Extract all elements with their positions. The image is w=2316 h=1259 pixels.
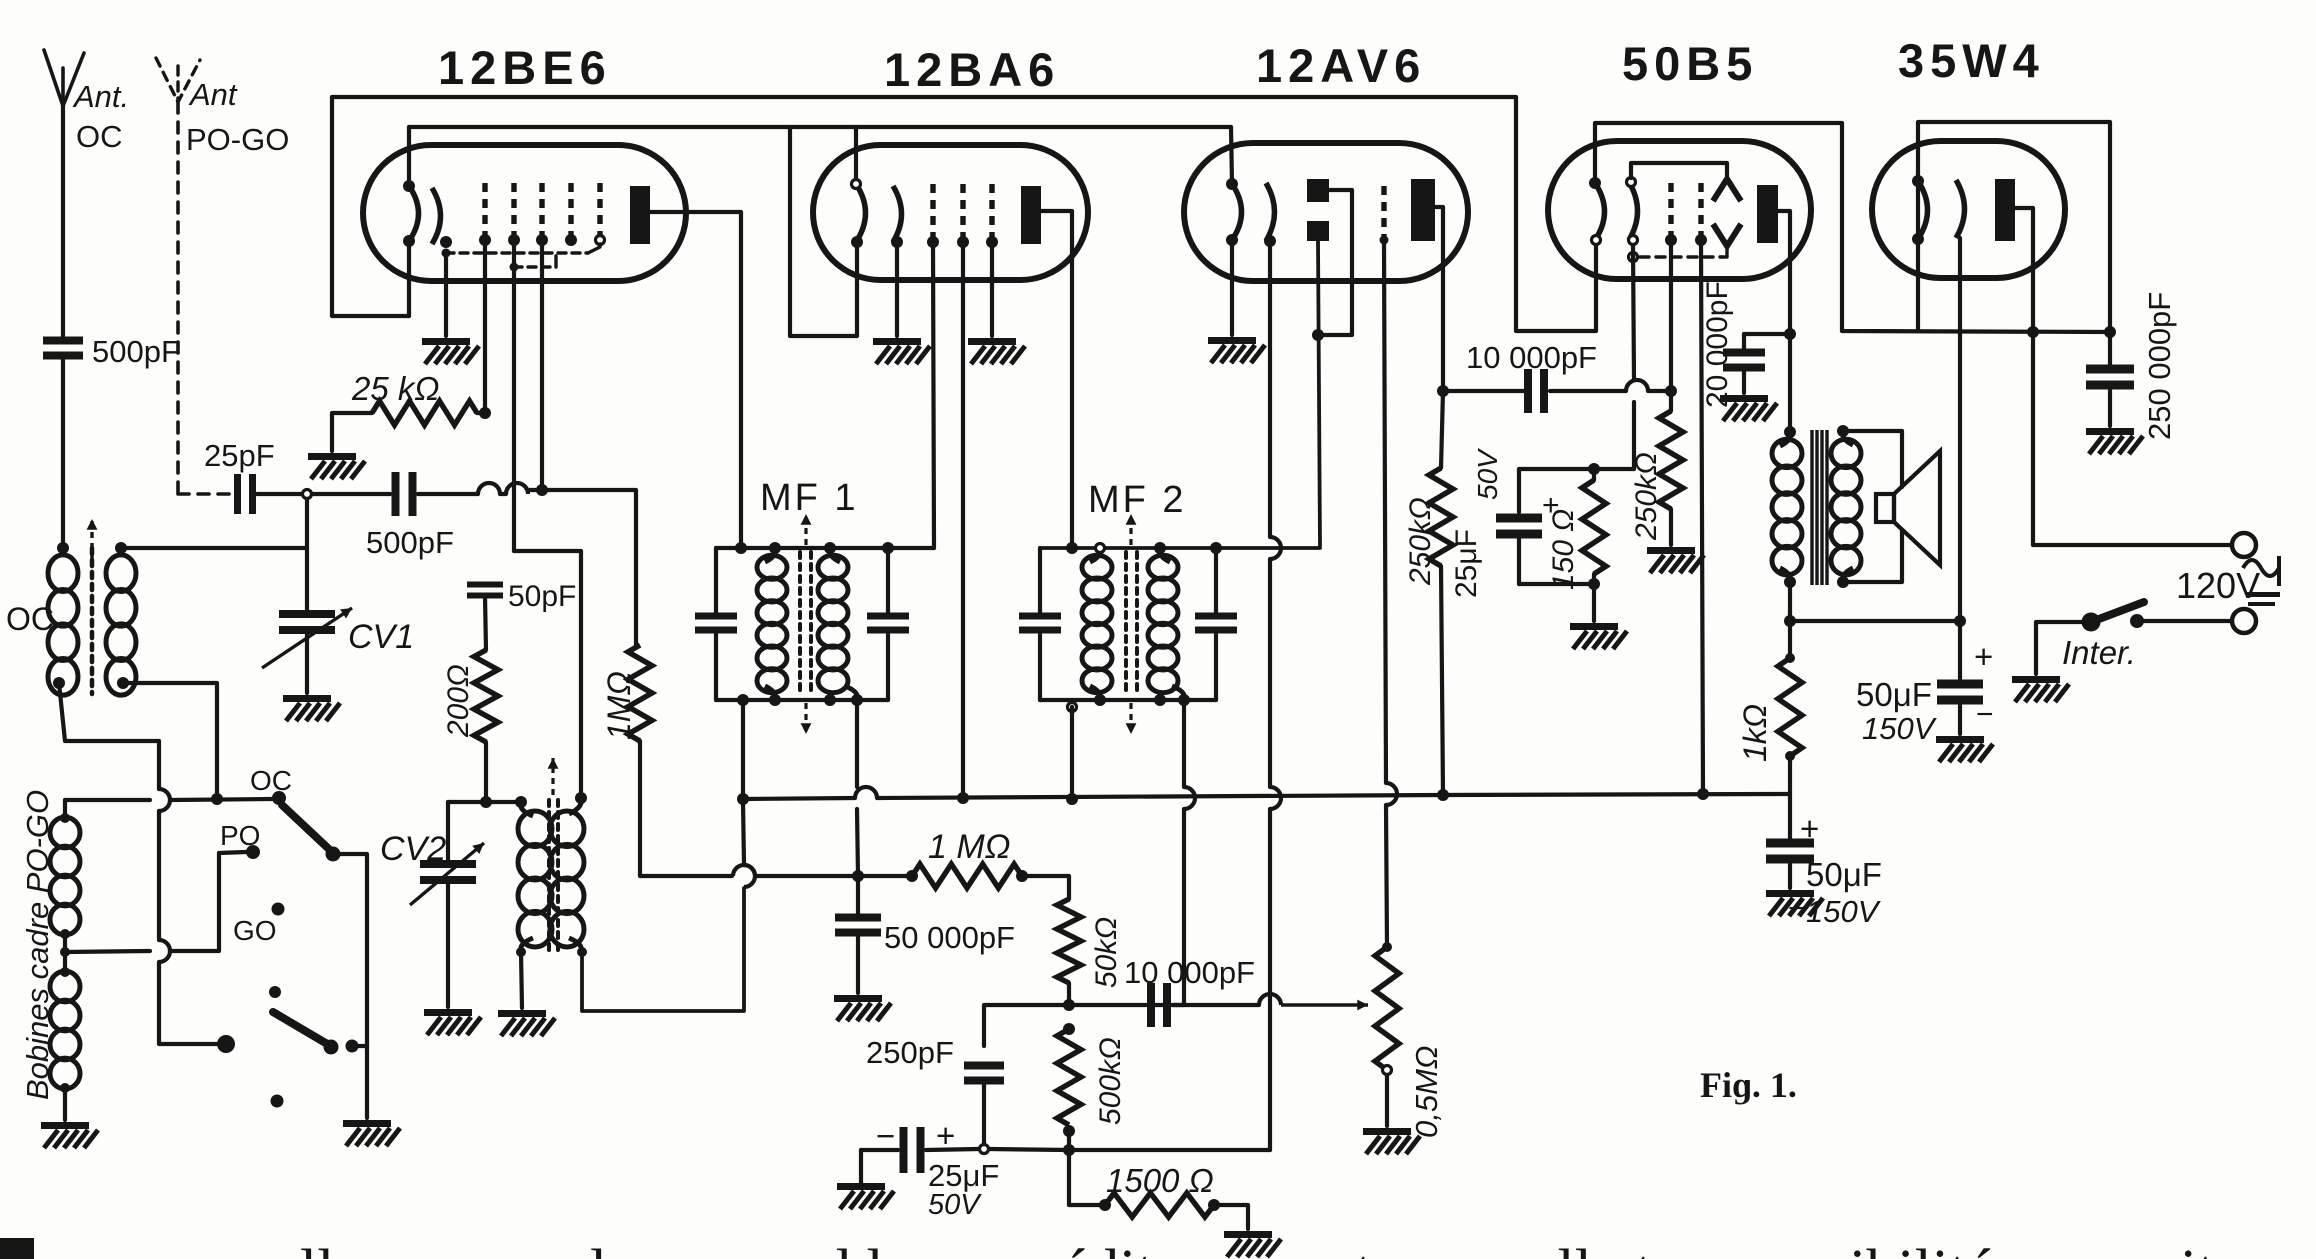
svg-text:d le: d le bbox=[820, 1238, 911, 1259]
grid1 of 50B5 bbox=[1698, 183, 1703, 238]
svg-text:+: + bbox=[1800, 810, 1819, 847]
wire osc return to bus bbox=[743, 802, 744, 864]
wire coupling left lead bbox=[1443, 389, 1523, 393]
cathode of 12AV6 bbox=[1266, 183, 1275, 241]
wire 25uF right bbox=[926, 1149, 979, 1150]
junction antenna wire bbox=[211, 793, 223, 805]
wire 50B5 g2 lead bbox=[1669, 240, 1673, 391]
wire cathode feed bbox=[1790, 619, 1960, 623]
svg-text:50V: 50V bbox=[1472, 448, 1503, 500]
wire 35W4 plate down bbox=[2015, 208, 2033, 332]
capacitor 50µF 150V right bbox=[1937, 680, 1983, 705]
cathode of 35W4 bbox=[1956, 180, 1965, 238]
svg-text:lle: lle bbox=[300, 1238, 362, 1259]
wire 50uF bottom stem bbox=[1788, 794, 1792, 840]
wire antenna PO-GO dashed bbox=[176, 102, 180, 494]
junction MF1 primary bottom bus bbox=[737, 793, 749, 805]
coil MF1 primary bbox=[757, 555, 787, 692]
wire MF2 secondary down2 bbox=[1152, 809, 1184, 1005]
pin dot 50B5 filament top bbox=[1589, 177, 1601, 189]
wire Inter to ground bbox=[2036, 622, 2091, 674]
junction PO-GO mid1 bbox=[60, 929, 70, 939]
tube 35W4 envelope bbox=[1872, 141, 2065, 278]
wire osc grid jog bbox=[514, 551, 581, 798]
resistor 1MΩ horizontal bbox=[912, 864, 1022, 888]
beam electrode upper of 50B5 bbox=[1713, 179, 1741, 201]
wire 12BE6 g3 lead bbox=[540, 240, 544, 490]
wire MF2 right cap stem2 bbox=[1214, 634, 1218, 700]
wire 12BE6 internal grid link bbox=[446, 251, 588, 254]
resistor 150Ω bbox=[1582, 480, 1606, 574]
capacitor 10000pF audio bbox=[1147, 983, 1171, 1027]
wire PO-GO to ground bbox=[63, 1088, 67, 1120]
pin circle 50B5 filament bottom bbox=[1592, 236, 1601, 245]
contact Inter left bbox=[2082, 613, 2101, 632]
junction MF1 right cap top bbox=[882, 542, 894, 554]
capacitor 25µF 50V bbox=[900, 1127, 925, 1173]
grid4 of 12BE6 bbox=[568, 183, 573, 238]
contact Inter right bbox=[2130, 614, 2144, 628]
coil cadre PO-GO lower bbox=[50, 971, 80, 1089]
wire 50uF right stem bbox=[1958, 621, 1962, 681]
hook MF2 secondary top bbox=[1160, 552, 1170, 562]
capacitor 20000pF bbox=[1723, 349, 1765, 372]
wire OC primary bottom bbox=[59, 683, 159, 741]
wire pivot link bbox=[333, 854, 367, 1044]
wire MF1 left cap stem2 bbox=[714, 634, 718, 700]
wire 50B5 screen loop bbox=[1631, 163, 1727, 178]
hook MF1 primary top bbox=[765, 552, 775, 562]
contact lower-right switch bbox=[346, 1040, 359, 1053]
svg-text:OC: OC bbox=[250, 765, 292, 796]
junction 50B5 grid cap bbox=[1665, 385, 1677, 397]
wire MF1 secondary down bbox=[855, 700, 859, 787]
junction MF1 bot primary bbox=[737, 694, 749, 706]
junction MF2 bot secondary bbox=[1178, 694, 1190, 706]
junction transformer bottom bbox=[1784, 576, 1796, 588]
cathode of 50B5 bbox=[1629, 182, 1638, 240]
svg-text:150 Ω: 150 Ω bbox=[1547, 509, 1580, 590]
svg-text:l: l bbox=[590, 1238, 607, 1259]
wire 50B5 plate to transformer bbox=[1788, 334, 1792, 432]
grid2 of 12BE6 bbox=[511, 183, 516, 238]
wire MF2 sec hop bus bbox=[1184, 787, 1195, 809]
terminal lower bbox=[2232, 609, 2256, 633]
capacitor 50000pF bbox=[835, 914, 881, 937]
junction osc secondary bottom bbox=[577, 947, 587, 957]
wire MF1 right cap stem2 bbox=[886, 634, 890, 700]
junction transformer top bbox=[1784, 426, 1796, 438]
svg-text:10 000pF: 10 000pF bbox=[1124, 955, 1255, 990]
wire 12BA6 heater loop bbox=[790, 127, 857, 336]
svg-text:10 000pF: 10 000pF bbox=[1466, 340, 1597, 375]
svg-text:1kΩ: 1kΩ bbox=[1737, 704, 1773, 762]
hook MF2 secondary bottom bbox=[1172, 686, 1184, 696]
junction 500k top bbox=[1063, 1023, 1075, 1035]
junction 250pF return bbox=[980, 1145, 989, 1154]
grid1 of 12BE6 bbox=[482, 183, 487, 238]
speaker driver bbox=[1876, 494, 1894, 522]
junction MF2 plate bbox=[1066, 542, 1078, 554]
diode plate A of 12AV6 bbox=[1307, 179, 1329, 202]
wire switch lower end bbox=[159, 962, 217, 1044]
junction osc primary top bbox=[515, 796, 527, 808]
svg-text:PO-GO: PO-GO bbox=[186, 122, 289, 157]
wire 12BE6 left frame bbox=[332, 97, 409, 316]
wire osc primary ground lead bbox=[521, 952, 522, 1008]
junction OC primary top bbox=[57, 542, 69, 554]
junction circle input bbox=[303, 490, 312, 499]
hook out primary top bbox=[1780, 436, 1790, 446]
wire pot ground lead bbox=[1385, 1075, 1389, 1126]
pin dot 12BE6 g1 bbox=[479, 234, 491, 246]
wire MF2 top rail bbox=[1040, 546, 1320, 550]
svg-text:25μF: 25μF bbox=[1450, 529, 1483, 598]
wire heater line bbox=[409, 125, 1231, 129]
junction MF2 secondary top bbox=[1154, 542, 1166, 554]
hook MF1 secondary bottom bbox=[845, 686, 857, 696]
wire 150 ground lead bbox=[1592, 584, 1596, 621]
wire secondary bottom to speaker bbox=[1843, 530, 1902, 582]
wire hop over cathode line bbox=[1259, 994, 1281, 1005]
ground 50µF right bbox=[1936, 736, 1993, 762]
junction 12BE6 internal bbox=[442, 249, 451, 258]
pin dot 12BE6 g4 bbox=[565, 234, 577, 246]
core MF2 b bbox=[1135, 552, 1139, 696]
wire 1k top lead bbox=[1788, 621, 1792, 658]
wire OC secondary to PO-GO top bbox=[123, 683, 217, 799]
wire PO-GO contact line bbox=[65, 798, 150, 802]
pin dot 12BA6 g3 bbox=[986, 236, 998, 248]
wire diodes to MF2 bbox=[1318, 241, 1320, 546]
svg-text:50μF: 50μF bbox=[1806, 856, 1882, 893]
svg-text:Ant: Ant bbox=[188, 77, 238, 112]
wire PO-GO contact line2 bbox=[170, 799, 272, 800]
junction secondary bottom bbox=[1837, 576, 1849, 588]
wire lower contact link bbox=[352, 1044, 367, 1048]
wire 12AV6 cathode down2 bbox=[1268, 559, 1272, 787]
tube 12AV6 envelope bbox=[1184, 143, 1468, 281]
terminal upper bbox=[2232, 533, 2256, 557]
ground 50µF lower bbox=[1766, 890, 1823, 916]
junction detector node bbox=[1063, 999, 1075, 1011]
core MF1 a bbox=[798, 552, 802, 696]
junction 1MΩh right bbox=[1016, 870, 1028, 882]
wire heater feed to 50B5 bbox=[1516, 97, 1596, 331]
svg-text:50μF: 50μF bbox=[1856, 676, 1932, 713]
svg-text:50pF: 50pF bbox=[508, 580, 576, 613]
junction MF1 plate bbox=[735, 542, 747, 554]
svg-text:rédit: rédit bbox=[1040, 1238, 1154, 1259]
wire 12AV6 plate down bbox=[1435, 207, 1443, 391]
arrow volume wiper bbox=[1281, 1000, 1368, 1011]
plate of 50B5 bbox=[1757, 185, 1778, 243]
svg-text:t: t bbox=[1355, 1238, 1372, 1259]
arrow OC tuning bbox=[87, 519, 98, 560]
arrow MF2 bottom bbox=[1126, 703, 1137, 734]
pin dot 50B5 g2 bbox=[1665, 234, 1677, 246]
wire g3 to 1MΩ bbox=[542, 490, 636, 645]
wire 50B5 filament top to frame bbox=[1595, 123, 2110, 332]
resistor 1MΩ vertical bbox=[628, 645, 652, 741]
capacitor 25µF cathode bbox=[1496, 514, 1542, 539]
svg-text:200Ω: 200Ω bbox=[442, 664, 475, 738]
wire 50uF right ground lead bbox=[1958, 702, 1962, 734]
wire top B+ bus bbox=[332, 95, 1516, 99]
capacitor 500pF grid bbox=[392, 472, 417, 516]
wire 12BA6 screen to bus bbox=[961, 242, 965, 798]
coil MF2 primary bbox=[1082, 555, 1112, 692]
junction PO-GO coil bottom bbox=[60, 1083, 70, 1093]
junction 500k bottom bbox=[1063, 1125, 1075, 1137]
svg-text:250pF: 250pF bbox=[866, 1035, 954, 1070]
pin dot 12BA6 g1 bbox=[927, 236, 939, 248]
svg-text:250kΩ: 250kΩ bbox=[1404, 497, 1437, 586]
junction osc primary bottom bbox=[516, 947, 526, 957]
wire 12BE6 g5 hook bbox=[588, 244, 600, 253]
svg-text:250 000pF: 250 000pF bbox=[2142, 292, 2177, 440]
wire MF1 right cap stem bbox=[886, 548, 890, 614]
junction MF2 primary top bbox=[1096, 544, 1105, 553]
wire cap to MF2 drop bbox=[1173, 1003, 1259, 1007]
pin dot 12AV6 cathode bbox=[1264, 235, 1276, 247]
wire AVC seg2 bbox=[756, 874, 858, 878]
wire hop over AVC bbox=[744, 865, 755, 887]
pin dot 12BE6 g3 bbox=[536, 234, 548, 246]
junction bus 12BA6 screen bbox=[957, 792, 969, 804]
hook out secondary top bbox=[1843, 435, 1853, 445]
wire 12BE6 g2 lead bbox=[483, 240, 487, 413]
junction diodes bbox=[1312, 329, 1324, 341]
wire MF2 left cap stem2 bbox=[1038, 634, 1042, 700]
wire coupling right bbox=[1648, 389, 1671, 393]
wire 12BA6 plate to MF2 bbox=[1041, 211, 1072, 548]
resistor 1kΩ bbox=[1778, 658, 1802, 756]
grid3 of 12BA6 bbox=[989, 184, 994, 238]
junction pot bottom bbox=[1383, 1066, 1392, 1075]
speaker cone bbox=[1894, 451, 1940, 565]
junction secondary top bbox=[1837, 425, 1849, 437]
wire coupling mid bbox=[1550, 389, 1626, 393]
wire MF2 secondary down bbox=[1182, 700, 1186, 787]
wire transformer to 1k bbox=[1788, 582, 1792, 621]
grid of 12AV6 bbox=[1381, 186, 1386, 238]
junction bus 50B5 grid bbox=[1697, 788, 1709, 800]
antenna PO-GO mast bbox=[176, 66, 179, 102]
wire 500pF to hops bbox=[418, 492, 478, 496]
pin dot 12AV6 grid bbox=[1380, 236, 1389, 245]
ground PO-GO coil bbox=[41, 1122, 98, 1148]
contact mid switch bbox=[269, 986, 281, 998]
capacitor 500pF antenna bbox=[43, 337, 83, 360]
svg-text:12BA6: 12BA6 bbox=[884, 43, 1060, 96]
svg-text:PO: PO bbox=[220, 820, 260, 851]
coil OC primary bbox=[48, 555, 78, 695]
svg-text:25μF: 25μF bbox=[928, 1158, 999, 1193]
hook MF1 primary bottom bbox=[765, 686, 775, 696]
antenna OC mast bbox=[61, 68, 65, 106]
wire 12BE6 filament bottom lead bbox=[407, 241, 411, 316]
junction bus 250k bbox=[1437, 789, 1449, 801]
svg-text:CV1: CV1 bbox=[348, 618, 414, 656]
arrow oscillator tuning bbox=[548, 758, 559, 795]
junction 150 bottom bbox=[1588, 578, 1600, 590]
wire osc top rail bbox=[448, 800, 521, 804]
junction MF2 bot secondary b bbox=[1154, 694, 1166, 706]
capacitor MF1 left bbox=[695, 613, 737, 634]
hook osc secondary top bbox=[569, 802, 581, 814]
wire OC sec top to CV1 bbox=[121, 546, 307, 550]
filament of 12BE6 bbox=[409, 186, 419, 241]
wire to g3 dot bbox=[528, 488, 542, 492]
svg-text:MF 2: MF 2 bbox=[1088, 479, 1187, 521]
wire 250k left top lead bbox=[1441, 391, 1443, 468]
grid1 of 12BA6 bbox=[930, 184, 935, 238]
contact lower-left switch bbox=[217, 1035, 235, 1053]
svg-text:elle t: elle t bbox=[1530, 1238, 1652, 1259]
junction 12BE6 internal2 bbox=[510, 263, 519, 272]
wire MF2 right cap stem bbox=[1214, 548, 1218, 614]
wire bus hop over AVC drop bbox=[855, 787, 877, 798]
tube 50B5 envelope bbox=[1548, 141, 1811, 279]
clipped body text drop cap bbox=[0, 1238, 34, 1259]
contact PO switch bbox=[246, 845, 260, 859]
ground 150Ω bbox=[1570, 623, 1627, 649]
filament of 12AV6 bbox=[1232, 184, 1242, 240]
ground 12BA6 g3 bbox=[968, 338, 1025, 364]
hook MF1 secondary top bbox=[830, 552, 840, 562]
diode plate B of 12AV6 bbox=[1307, 221, 1329, 241]
wire 35W4 plate to terminal bbox=[2031, 332, 2035, 545]
junction PO-GO coil top bbox=[60, 813, 70, 823]
wire 50B5 beam dash bbox=[1640, 255, 1722, 258]
svg-text:0,5MΩ: 0,5MΩ bbox=[1409, 1045, 1444, 1138]
coil oscillator primary bbox=[518, 811, 552, 947]
wire 250k right top lead bbox=[1669, 391, 1673, 411]
wire 12BA6 filament top lead bbox=[854, 127, 858, 181]
wire AVC hop bbox=[733, 865, 755, 876]
junction 1MΩh left bbox=[906, 870, 918, 882]
junction MF2 right cap top bbox=[1210, 542, 1222, 554]
svg-text:GO: GO bbox=[233, 915, 277, 946]
wire 20000pF link bbox=[1744, 332, 1790, 336]
capacitor 50pF bbox=[467, 582, 503, 599]
pin dot 12AV6 filament bottom bbox=[1226, 234, 1238, 246]
wire antenna OC down bbox=[61, 106, 65, 336]
antenna OC symbol bbox=[44, 50, 84, 106]
coil output secondary bbox=[1831, 439, 1861, 575]
junction OC secondary bottom bbox=[117, 677, 129, 689]
junction B+ node bbox=[1954, 615, 1966, 627]
junction 1500 left bbox=[1099, 1199, 1111, 1211]
tube 12BE6 envelope bbox=[363, 145, 686, 281]
wire secondary top to speaker bbox=[1843, 431, 1902, 487]
contact GO switch bbox=[272, 903, 285, 916]
core oscillator b bbox=[556, 800, 560, 950]
pin circle 50B5 cathode top bbox=[1627, 178, 1636, 187]
pin circle 50B5 cathode bottom bbox=[1629, 236, 1638, 245]
wire 12AV6 filament ground bbox=[1230, 240, 1234, 335]
wire PO tap2 bbox=[170, 852, 246, 951]
wire hop switch wire1 bbox=[159, 789, 170, 811]
wire MF1 primary to bus bbox=[741, 700, 745, 799]
wire 25pF to junction bbox=[257, 492, 302, 496]
resistor 1500Ω bbox=[1105, 1193, 1214, 1217]
ground 1500Ω bbox=[1224, 1231, 1281, 1257]
wire 250000pF stem bbox=[2108, 332, 2112, 366]
wire main bus seg1 bbox=[743, 798, 855, 799]
core oscillator a bbox=[547, 800, 551, 950]
wire hop switch wire2 bbox=[159, 940, 170, 962]
wire cathode hop bus bbox=[1270, 787, 1281, 809]
wire 12BE6 plate to MF1 bbox=[650, 212, 741, 548]
ground 250kΩ bbox=[1647, 547, 1704, 573]
svg-text:+: + bbox=[1974, 638, 1993, 675]
svg-text:20 000pF: 20 000pF bbox=[1701, 281, 1734, 408]
wire 150 top lead bbox=[1592, 469, 1596, 480]
junction plate 12AV6 coupling bbox=[1437, 385, 1449, 397]
wire cathode hop MF2 rail bbox=[1270, 537, 1281, 559]
hook MF2 primary top bbox=[1090, 552, 1100, 562]
wire hop over g2 lead bbox=[478, 483, 500, 494]
svg-text:Ant.: Ant. bbox=[72, 79, 129, 114]
variable capacitor CV2 bbox=[420, 860, 476, 884]
svg-text:Fіɡ. 1.: Fіɡ. 1. bbox=[1700, 1065, 1797, 1105]
wire MF2 left cap stem bbox=[1038, 548, 1042, 614]
ground 12BE6 cathode bbox=[422, 338, 479, 364]
tube 12BA6 envelope bbox=[813, 145, 1088, 280]
junction MF1 bot secondary bbox=[851, 694, 863, 706]
junction 1k top bbox=[1785, 653, 1795, 663]
svg-text:50V: 50V bbox=[928, 1189, 982, 1221]
wire CV2 to ground bbox=[446, 880, 450, 1007]
wire 50000pF ground lead bbox=[856, 936, 860, 993]
filament of 50B5 bbox=[1595, 183, 1605, 240]
wire 25kΩ left lead bbox=[332, 413, 372, 451]
wire 1k to bus bbox=[1788, 756, 1792, 794]
wire dashed to 25pF bbox=[178, 492, 233, 496]
junction MF1 primary top bbox=[769, 542, 781, 554]
hook MF2 primary bottom bbox=[1090, 686, 1100, 696]
wire MF1 secondary down2 bbox=[857, 809, 858, 876]
wire 12AV6 heater drop bbox=[1231, 127, 1232, 184]
wire 20000pF stem bbox=[1742, 334, 1746, 350]
junction OC secondary top bbox=[115, 542, 127, 554]
resistor 0,5MΩ bbox=[1375, 947, 1399, 1070]
pin dot 12BE6 filament top bbox=[403, 180, 415, 192]
wire detector to cap bbox=[1069, 1003, 1146, 1007]
svg-text:it: it bbox=[2180, 1238, 2214, 1259]
capacitor 50µF 150V lower bbox=[1766, 839, 1814, 864]
pin circle 12BE6 g5 bbox=[596, 236, 605, 245]
wire switch lower mid bbox=[157, 811, 161, 940]
wire main bus seg2 bbox=[877, 795, 1443, 798]
ground oscillator bbox=[498, 1010, 555, 1036]
junction 1500 right bbox=[1208, 1199, 1220, 1211]
plate of 35W4 bbox=[1995, 179, 2015, 241]
wire hop over g1 lead bbox=[506, 483, 528, 494]
svg-text:12BE6: 12BE6 bbox=[438, 41, 612, 94]
svg-text:500pF: 500pF bbox=[366, 525, 454, 560]
wire 50B5 cathode down2 bbox=[1632, 402, 1636, 469]
junction PO-GO mid2 bbox=[60, 967, 70, 977]
wire 35W4 left frame bbox=[1918, 122, 2110, 332]
pin dot 12BA6 filament bottom bbox=[851, 236, 863, 248]
svg-text:500kΩ: 500kΩ bbox=[1094, 1037, 1127, 1125]
resistor 200Ω bbox=[474, 650, 498, 742]
junction g2 and 25k bbox=[479, 407, 491, 419]
wire 50B5 beam link bbox=[1722, 246, 1727, 257]
